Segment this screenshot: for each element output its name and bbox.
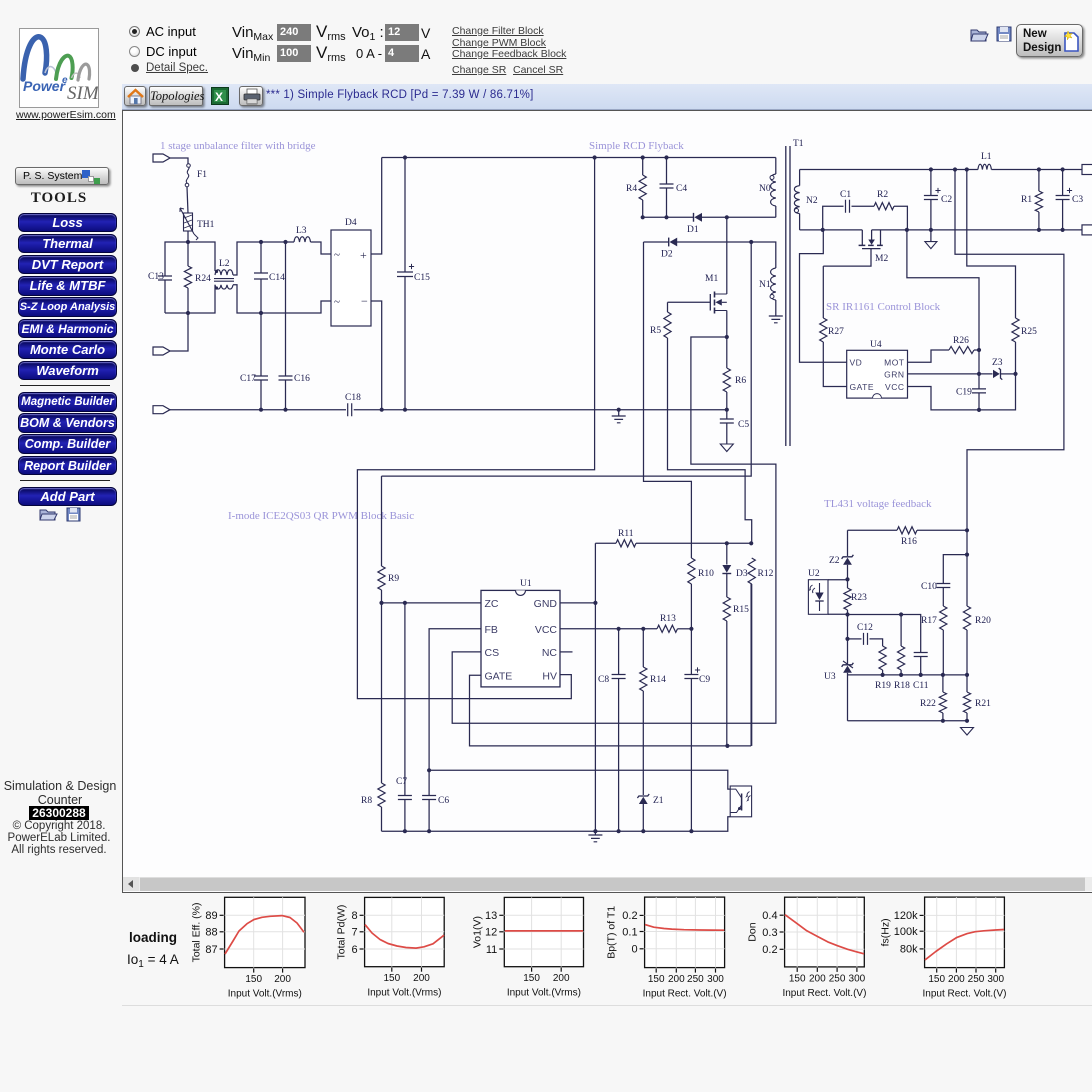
node (filter bottom)	[186, 311, 190, 315]
resistor R12	[748, 558, 773, 746]
svg-text:Input Volt.(Vrms): Input Volt.(Vrms)	[228, 989, 302, 1000]
SR MOSFET M2	[859, 230, 889, 264]
svg-text:M1: M1	[705, 274, 718, 284]
svg-text:R19: R19	[875, 681, 891, 691]
wire (primary DC+ rail)	[382, 157, 776, 159]
svg-text:fs(Hz): fs(Hz)	[880, 918, 892, 946]
wire (M2 gate)	[823, 249, 871, 267]
node	[977, 372, 1018, 412]
svg-text:Input Rect. Volt.(V): Input Rect. Volt.(V)	[923, 989, 1007, 1000]
inductor L1	[978, 152, 992, 170]
wire (bridge - to DC- rail)	[371, 301, 382, 410]
wire (mid node row)	[848, 614, 902, 616]
wire	[233, 285, 331, 313]
svg-text:SR IR1161 Control Block: SR IR1161 Control Block	[826, 301, 941, 313]
wire (GATE route)	[470, 675, 752, 746]
svg-text:C11: C11	[913, 681, 929, 691]
wire (M1 source)	[726, 311, 728, 338]
transformer secondary winding N2	[794, 170, 818, 230]
svg-text:150: 150	[245, 974, 262, 985]
svg-text:~: ~	[334, 296, 340, 308]
resistor R5	[650, 302, 671, 338]
svg-text:R20: R20	[975, 616, 991, 626]
svg-text:0.2: 0.2	[622, 910, 637, 922]
svg-text:R13: R13	[660, 614, 676, 624]
svg-text:C12: C12	[857, 623, 873, 633]
resistor R6	[723, 337, 746, 410]
resistor R20	[963, 606, 991, 675]
svg-text:N2: N2	[806, 196, 818, 206]
svg-text:R26: R26	[953, 336, 969, 346]
resistor R8	[361, 603, 385, 831]
node	[941, 719, 945, 723]
svg-text:C6: C6	[438, 796, 449, 806]
resistor R1	[1021, 170, 1043, 230]
wire	[170, 313, 188, 351]
wire (GRN row)	[908, 373, 993, 375]
svg-text:R21: R21	[975, 699, 991, 709]
node	[379, 601, 407, 605]
MOSFET M1	[705, 274, 727, 314]
wire (bridge + to DC rail)	[371, 158, 382, 255]
resistor R27	[820, 266, 847, 386]
ground (primary)	[612, 410, 626, 423]
top right icons	[970, 26, 1014, 49]
svg-text:Z1: Z1	[653, 796, 664, 806]
node	[593, 601, 597, 605]
svg-text:FB: FB	[485, 624, 498, 636]
svg-text:U3: U3	[824, 672, 836, 682]
svg-text:Simple RCD Flyback: Simple RCD Flyback	[589, 140, 684, 152]
node	[259, 408, 729, 412]
svg-text:Don: Don	[747, 922, 759, 941]
resistor R19	[875, 646, 891, 691]
svg-text:L3: L3	[296, 226, 307, 236]
wire	[187, 187, 188, 213]
svg-text:R8: R8	[361, 796, 372, 806]
capacitor C10	[921, 582, 950, 606]
svg-text:SIM: SIM	[67, 83, 98, 104]
capacitor C18	[345, 393, 361, 416]
svg-text:~: ~	[334, 249, 340, 261]
svg-text:200: 200	[553, 973, 570, 984]
wire (VCC row U4)	[908, 374, 1016, 410]
svg-text:300: 300	[849, 973, 866, 984]
capacitor C17	[240, 313, 268, 410]
AC input terminal 2	[153, 347, 170, 355]
node	[929, 167, 1065, 171]
svg-text:R22: R22	[920, 699, 936, 709]
wire	[170, 158, 188, 165]
block title: Simple RCD Flyback	[589, 140, 684, 152]
svg-text:R12: R12	[758, 569, 774, 579]
svg-text:C9: C9	[699, 675, 710, 685]
output terminal -	[1082, 225, 1092, 235]
node	[617, 627, 694, 631]
svg-text:VD: VD	[850, 358, 863, 368]
transformer primary winding N0	[759, 158, 776, 218]
wire (VCC row)	[560, 628, 692, 630]
AC input terminal 3	[153, 406, 170, 414]
svg-text:88: 88	[205, 927, 217, 939]
wire (FB route)	[429, 629, 730, 789]
wire (CS route)	[452, 337, 776, 723]
wire (U2 pins)	[828, 580, 848, 615]
svg-text:C8: C8	[598, 675, 609, 685]
resistor R11	[595, 529, 751, 547]
svg-text:R16: R16	[901, 537, 917, 547]
svg-text:C17: C17	[240, 374, 256, 384]
wire (secondary return rail)	[800, 229, 1082, 231]
svg-text:CS: CS	[485, 647, 500, 659]
block title: TL431 voltage feedback	[824, 498, 932, 510]
diode D1	[687, 213, 702, 235]
svg-text:Total Eff. (%): Total Eff. (%)	[191, 902, 203, 962]
wire	[188, 242, 215, 271]
svg-text:C16: C16	[294, 374, 310, 384]
capacitor C9 (polar)	[684, 629, 710, 831]
svg-text:Bp(T) of T1: Bp(T) of T1	[606, 906, 618, 959]
svg-text:R27: R27	[828, 327, 844, 337]
svg-text:1 stage unbalance filter with: 1 stage unbalance filter with bridge	[160, 140, 316, 152]
capacitor C4	[660, 158, 688, 218]
svg-text:GRN: GRN	[884, 370, 904, 380]
svg-text:L2: L2	[219, 259, 230, 269]
wire	[187, 231, 189, 242]
svg-text:C7: C7	[396, 777, 407, 787]
chassis arrow (feedback)	[961, 728, 974, 736]
svg-text:GND: GND	[534, 598, 558, 610]
svg-text:−: −	[361, 294, 368, 308]
svg-text:200: 200	[274, 974, 291, 985]
chart: Bp(T) of T1 vs Input Rect Volt	[606, 897, 727, 1000]
resistor R18	[894, 615, 910, 692]
svg-text:300: 300	[707, 974, 724, 985]
svg-text:NC: NC	[542, 647, 558, 659]
svg-text:7: 7	[351, 927, 357, 939]
svg-text:150: 150	[789, 973, 806, 984]
block title: SR IR1161 Control Block	[826, 301, 941, 313]
wire	[165, 312, 188, 314]
node	[427, 768, 431, 772]
resistor R15	[723, 574, 749, 746]
node	[403, 155, 669, 159]
capacitor C1	[823, 190, 874, 230]
svg-text:0: 0	[631, 944, 637, 956]
node	[749, 240, 753, 244]
resistor R16	[848, 527, 968, 547]
capacitor C15	[397, 158, 430, 410]
transformer aux winding N1	[759, 268, 776, 316]
svg-text:R24: R24	[195, 274, 211, 284]
svg-text:150: 150	[928, 974, 945, 985]
svg-text:Total Pd(W): Total Pd(W)	[336, 905, 348, 960]
svg-text:R14: R14	[650, 675, 666, 685]
wire (gate drive route)	[668, 338, 752, 543]
IC U4 (IR1161)	[847, 340, 908, 398]
capacitor C2 (polar)	[924, 170, 952, 230]
svg-text:200: 200	[668, 974, 685, 985]
chart: Vo1 vs Input Volt	[471, 897, 583, 998]
wire (primary DC- rail)	[354, 409, 727, 411]
svg-text:M2: M2	[875, 254, 888, 264]
svg-text:Power: Power	[23, 78, 67, 94]
resistor R9	[378, 476, 399, 603]
wire (AC neutral rail)	[170, 409, 346, 411]
svg-text:TL431 voltage feedback: TL431 voltage feedback	[824, 498, 932, 510]
svg-text:D4: D4	[345, 218, 357, 228]
wire (M1 gate to R5)	[668, 301, 711, 303]
svg-text:Z2: Z2	[829, 556, 840, 566]
svg-text:R2: R2	[877, 190, 888, 200]
wire	[233, 242, 294, 275]
wire (VD route)	[800, 230, 847, 362]
svg-text:89: 89	[205, 910, 217, 922]
svg-text:I-mode ICE2QS03 QR PWM Block B: I-mode ICE2QS03 QR PWM Block Basic	[228, 510, 414, 522]
chart: Total Eff vs Input Volt	[191, 897, 305, 999]
chart: fs(Hz) vs Input Rect Volt	[880, 897, 1007, 1000]
resistor R2	[874, 190, 907, 230]
capacitor C8	[598, 629, 626, 831]
svg-text:200: 200	[948, 974, 965, 985]
svg-text:C14: C14	[269, 273, 285, 283]
wire	[751, 242, 776, 268]
wire (feedback sense route)	[955, 170, 1064, 530]
common-mode choke L2	[214, 259, 234, 290]
capacitor C6	[422, 770, 449, 831]
svg-text:6: 6	[351, 944, 357, 956]
svg-text:250: 250	[968, 974, 985, 985]
svg-text:C15: C15	[414, 273, 430, 283]
svg-text:Input Rect. Volt.(V): Input Rect. Volt.(V)	[643, 989, 727, 1000]
wire (ZC sense from aux)	[382, 242, 752, 476]
svg-text:U4: U4	[870, 340, 882, 350]
svg-text:200: 200	[809, 973, 826, 984]
svg-text:F1: F1	[197, 170, 207, 180]
svg-text:N0: N0	[759, 184, 771, 194]
svg-text:HV: HV	[542, 671, 557, 683]
svg-text:R15: R15	[733, 605, 749, 615]
wire (C10 branch)	[943, 555, 967, 584]
resistor R26	[949, 336, 979, 354]
resistor R25	[967, 170, 1037, 374]
svg-text:MOT: MOT	[884, 358, 904, 368]
capacitor C3 (polar)	[1056, 170, 1084, 230]
svg-text:D3: D3	[736, 569, 748, 579]
chart: Don vs Input Rect Volt	[747, 897, 867, 999]
capacitor C19	[956, 388, 986, 410]
zener Z2	[829, 530, 853, 579]
output terminal +	[1082, 165, 1092, 175]
capacitor C12	[848, 623, 883, 646]
resistor R13	[657, 614, 678, 632]
resistor R23	[844, 579, 867, 639]
svg-text:ZC: ZC	[485, 598, 499, 610]
wire (M1 drain)	[726, 217, 728, 294]
wire (ZC row)	[382, 602, 482, 604]
wire (secondary + rail)	[800, 169, 1082, 171]
svg-text:VCC: VCC	[535, 624, 558, 636]
svg-text:11: 11	[486, 944, 497, 956]
svg-text:100k: 100k	[894, 926, 918, 938]
svg-text:R6: R6	[735, 376, 746, 386]
svg-text:Input Volt.(Vrms): Input Volt.(Vrms)	[367, 988, 441, 999]
svg-text:150: 150	[383, 973, 400, 984]
wire (MOT row)	[908, 350, 950, 362]
loading / Io	[129, 930, 177, 945]
resistor R10	[688, 558, 714, 629]
wire	[311, 242, 332, 254]
svg-text:R5: R5	[650, 326, 661, 336]
svg-text:C19: C19	[956, 388, 972, 398]
svg-text:C3: C3	[1072, 195, 1083, 205]
svg-text:L1: L1	[981, 152, 992, 162]
svg-text:C2: C2	[941, 195, 952, 205]
thermistor TH1	[180, 208, 215, 240]
wire (SR vcc feed)	[907, 230, 979, 389]
counter block	[0, 779, 120, 807]
inductor L3	[294, 226, 311, 242]
svg-text:C4: C4	[676, 184, 687, 194]
svg-text:0.4: 0.4	[762, 910, 777, 922]
svg-text:13: 13	[485, 910, 497, 922]
wire	[188, 285, 215, 313]
capacitor C5	[720, 410, 750, 444]
chassis arrow (C5)	[720, 444, 733, 452]
svg-text:250: 250	[829, 973, 846, 984]
svg-text:0.3: 0.3	[762, 927, 777, 939]
node	[965, 528, 969, 723]
TL431 U3	[824, 639, 853, 721]
node	[899, 612, 903, 616]
svg-text:GATE: GATE	[850, 382, 875, 392]
svg-text:U1: U1	[520, 579, 532, 589]
chart: Total Pd vs Input Volt	[336, 897, 445, 998]
IC U1 (ICE2QS03)	[481, 579, 560, 687]
svg-text:C10: C10	[921, 582, 937, 592]
wire (GND column)	[594, 543, 596, 831]
wire (gate to R12)	[750, 584, 752, 746]
svg-text:Vo1(V): Vo1(V)	[471, 916, 483, 948]
svg-text:R4: R4	[626, 184, 637, 194]
svg-text:C13: C13	[148, 272, 164, 282]
svg-text:C1: C1	[840, 190, 851, 200]
node	[725, 541, 754, 545]
wire (GND pin row)	[560, 602, 596, 604]
wire (HV startup route)	[357, 158, 594, 699]
svg-text:C18: C18	[345, 393, 361, 403]
svg-text:TH1: TH1	[197, 220, 215, 230]
svg-text:R23: R23	[851, 593, 867, 603]
svg-text:VCC: VCC	[885, 382, 904, 392]
svg-text:Input Rect. Volt.(V): Input Rect. Volt.(V)	[782, 988, 866, 999]
svg-text:R9: R9	[388, 574, 399, 584]
capacitor C11	[901, 615, 929, 692]
wire (aux VCC route)	[644, 242, 692, 558]
svg-text:120k: 120k	[894, 910, 918, 922]
node (source sense)	[725, 335, 729, 339]
svg-text:U2: U2	[808, 569, 820, 579]
svg-text:8: 8	[351, 910, 357, 922]
svg-text:R1: R1	[1021, 195, 1032, 205]
resistor R22	[920, 675, 947, 721]
ground arrow (secondary)	[925, 230, 937, 249]
optocoupler U2 LED side	[808, 569, 828, 614]
node	[725, 744, 729, 748]
svg-text:250: 250	[687, 974, 704, 985]
svg-text:12: 12	[485, 927, 497, 939]
node	[403, 829, 694, 833]
optocoupler U2 transistor side	[730, 786, 751, 817]
ground (signal)	[588, 831, 602, 842]
resistor R24	[184, 242, 211, 313]
svg-text:GATE: GATE	[485, 671, 513, 683]
capacitor C14	[254, 242, 285, 313]
svg-text:+: +	[360, 248, 367, 262]
wire (aux rail D2)	[644, 241, 752, 243]
block title: I-mode ICE2QS03 QR PWM Block Basic	[228, 510, 414, 522]
node	[881, 673, 946, 677]
transformer T1 core	[786, 139, 804, 446]
svg-text:Z3: Z3	[992, 358, 1003, 368]
svg-text:D1: D1	[687, 225, 699, 235]
bridge rectifier D4	[331, 218, 371, 326]
capacitor C13	[148, 272, 172, 313]
block title: 1 stage unbalance filter with bridge	[160, 140, 316, 152]
AC input terminal 1	[153, 154, 170, 162]
svg-text:200: 200	[413, 973, 430, 984]
wire	[165, 242, 188, 276]
node (filter top)	[186, 240, 190, 244]
svg-text:C5: C5	[738, 420, 749, 430]
svg-text:R18: R18	[894, 681, 910, 691]
resistor R14	[640, 629, 666, 795]
svg-text:R10: R10	[698, 569, 714, 579]
svg-text:R11: R11	[618, 529, 634, 539]
svg-text:0.1: 0.1	[622, 926, 637, 938]
wire (ref node row)	[848, 674, 968, 676]
svg-text:300: 300	[987, 974, 1004, 985]
resistor R4	[626, 158, 646, 218]
zener Z3	[992, 358, 1016, 380]
horizontal scrollbar	[123, 877, 1092, 891]
wire (snubber rail)	[643, 216, 776, 218]
node	[259, 240, 288, 315]
resistor R17	[921, 606, 947, 675]
wire (primary signal ground rail)	[382, 817, 731, 831]
diode D2	[661, 238, 677, 260]
node	[845, 577, 849, 641]
svg-text:R25: R25	[1021, 327, 1037, 337]
stub NC	[560, 651, 573, 653]
capacitor C16	[279, 242, 311, 410]
svg-text:80k: 80k	[900, 944, 918, 956]
svg-text:R17: R17	[921, 616, 937, 626]
svg-text:N1: N1	[759, 280, 771, 290]
wire (fb bottom rail)	[848, 720, 968, 722]
node	[821, 228, 1065, 232]
svg-text:150: 150	[523, 973, 540, 984]
svg-text:0.2: 0.2	[762, 944, 777, 956]
node	[977, 348, 981, 376]
capacitor C7	[396, 603, 412, 831]
diode D3	[722, 543, 747, 579]
svg-text:Input Volt.(Vrms): Input Volt.(Vrms)	[507, 988, 581, 999]
node	[641, 215, 729, 219]
svg-text:150: 150	[648, 974, 665, 985]
fuse F1	[185, 164, 207, 187]
ground (aux winding)	[769, 316, 783, 323]
